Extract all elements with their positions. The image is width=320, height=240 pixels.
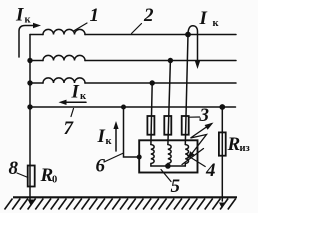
svg-text:к: к xyxy=(106,136,113,147)
svg-text:I: I xyxy=(15,4,24,25)
svg-text:к: к xyxy=(25,15,32,26)
svg-text:R: R xyxy=(227,134,241,155)
svg-text:0: 0 xyxy=(52,175,57,186)
svg-text:2: 2 xyxy=(143,5,154,26)
svg-text:3: 3 xyxy=(199,105,210,126)
svg-text:к: к xyxy=(80,91,87,102)
svg-text:I: I xyxy=(97,126,106,147)
svg-text:4: 4 xyxy=(205,160,216,181)
svg-text:5: 5 xyxy=(171,176,181,197)
svg-text:I: I xyxy=(71,82,80,103)
svg-text:из: из xyxy=(240,143,250,154)
svg-text:7: 7 xyxy=(64,118,75,139)
svg-text:8: 8 xyxy=(9,158,19,179)
svg-text:1: 1 xyxy=(90,5,100,26)
svg-text:6: 6 xyxy=(96,156,106,177)
svg-text:к: к xyxy=(213,18,220,29)
svg-text:I: I xyxy=(199,8,208,29)
